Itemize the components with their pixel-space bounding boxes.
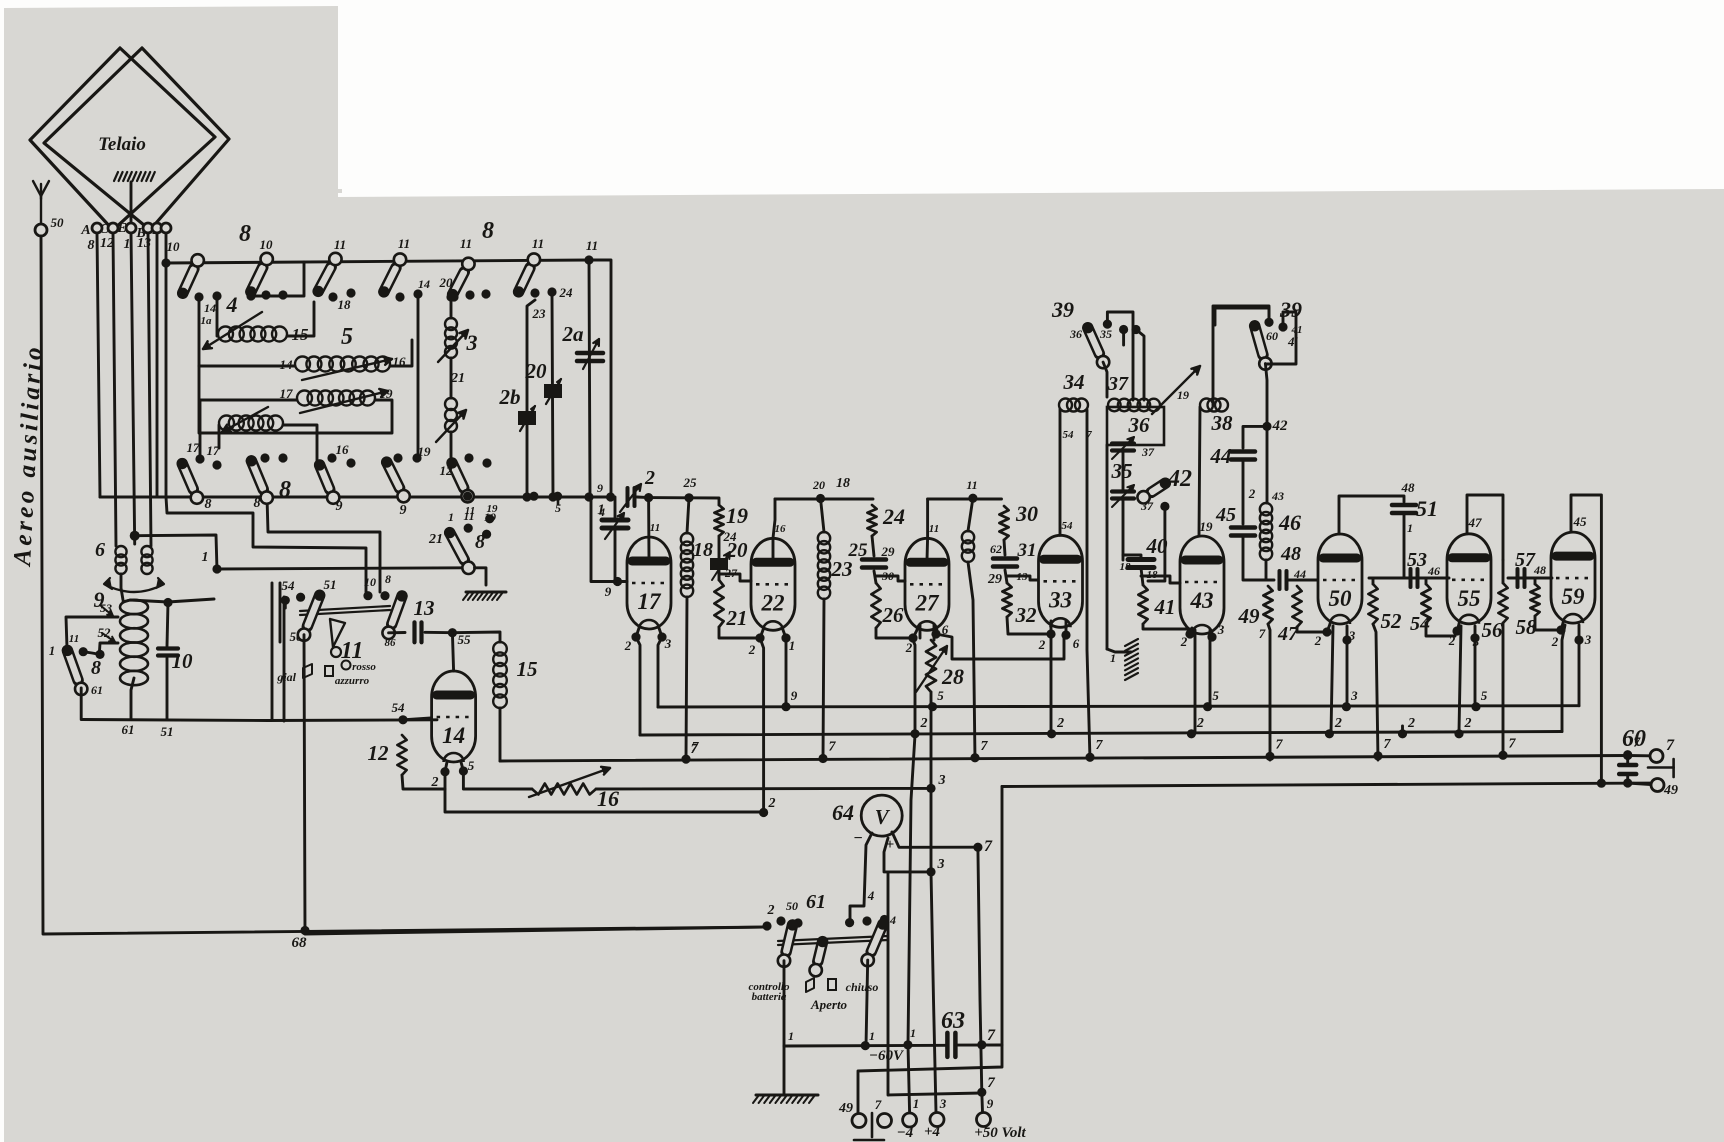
wire V27 pin2 — [913, 630, 917, 638]
switch lever 8M — [444, 527, 475, 574]
small square 61 — [828, 979, 836, 990]
wire grid line to V50 — [1287, 579, 1317, 582]
switch 11 bar — [300, 606, 390, 615]
svg-text:64: 64 — [832, 800, 854, 825]
wire box36 left down — [1106, 445, 1109, 649]
label 2 w812 — [768, 796, 776, 811]
svg-text:48: 48 — [1401, 480, 1416, 495]
wire pot16 to node3 — [596, 787, 931, 790]
wire Vminus lead — [850, 833, 872, 919]
label 2 v50 — [1314, 633, 1322, 648]
svg-text:5: 5 — [1481, 688, 1488, 703]
label 47 — [1277, 623, 1299, 645]
svg-text:55: 55 — [458, 632, 472, 647]
wire coil38 riser — [1213, 306, 1269, 405]
wire 39b contact2 loop — [1267, 312, 1296, 364]
wire E tap to node1 — [135, 535, 217, 570]
label 11 — [334, 237, 346, 252]
wire cap20 branch — [552, 296, 553, 497]
switch lever 61c — [862, 919, 889, 967]
label 21 — [726, 606, 748, 630]
wire grid V27 jog — [876, 576, 905, 581]
tube V33 — [1039, 535, 1083, 627]
svg-text:3: 3 — [1217, 622, 1225, 637]
wire vert x908 down — [908, 735, 915, 1113]
wire to terminal 49 — [1628, 783, 1651, 785]
label 68 — [292, 935, 308, 951]
label 24 r19 — [723, 529, 738, 544]
loop antenna frame (outer diamond) — [30, 48, 215, 230]
svg-text:4: 4 — [226, 292, 238, 317]
label 37 — [1107, 373, 1129, 395]
svg-text:54: 54 — [1062, 520, 1074, 532]
wire terminal C down — [113, 233, 116, 546]
wire cap2b branch — [527, 300, 535, 497]
label 54 c34 — [1063, 429, 1075, 441]
svg-text:3: 3 — [939, 1096, 947, 1111]
label 7 busC — [1276, 737, 1284, 752]
svg-text:15: 15 — [517, 657, 538, 681]
svg-text:19: 19 — [1200, 519, 1214, 534]
junction V50 pin3 — [1342, 635, 1351, 644]
svg-text:49: 49 — [1238, 604, 1261, 628]
label 45 — [1215, 504, 1236, 526]
arrow coil15 tuning — [203, 312, 262, 349]
tube V17 — [627, 537, 671, 629]
svg-text:20: 20 — [525, 359, 548, 383]
svg-text:36: 36 — [1128, 413, 1151, 437]
svg-text:1: 1 — [202, 550, 209, 565]
svg-text:20: 20 — [439, 275, 454, 290]
junction 42 node — [1262, 422, 1271, 431]
label 51 — [1416, 496, 1438, 521]
label 29 — [881, 544, 896, 559]
junction m60 a — [861, 1041, 870, 1050]
wire cap51 down to grid — [1403, 513, 1406, 578]
label 61 — [806, 891, 826, 913]
terminal batt 7b — [878, 1114, 892, 1128]
label 11 sw8 — [69, 633, 79, 645]
contact dot 8L1 — [79, 647, 88, 656]
junction V43 pin2 — [1185, 629, 1194, 638]
switch 11 rotor — [330, 619, 345, 657]
label 11 bus — [463, 509, 474, 523]
wire 39a contact3 down — [1136, 330, 1144, 401]
wire anode lead V22 — [773, 499, 775, 560]
svg-text:61: 61 — [91, 683, 103, 697]
capacitor 35a — [1112, 437, 1134, 459]
wire lever61a down — [783, 961, 786, 1046]
svg-text:2: 2 — [1248, 486, 1256, 501]
junction cap60 top — [1623, 751, 1632, 760]
svg-text:9: 9 — [605, 584, 612, 599]
label A — [80, 223, 90, 238]
label 86 — [385, 637, 397, 649]
label Telaio — [98, 134, 146, 155]
wire V22 pin2 — [760, 630, 763, 638]
svg-text:7: 7 — [1666, 737, 1675, 754]
resistor 24 — [867, 505, 876, 536]
label 63 — [941, 1008, 965, 1034]
wire node55 down to V14 — [452, 633, 453, 671]
coil 7 (long tertiary) — [297, 391, 375, 406]
selector switch lever S5 (top bank) — [447, 258, 475, 300]
svg-text:29: 29 — [987, 572, 1002, 587]
label 3 pin55 — [1472, 634, 1480, 649]
coil 6 (long secondary) — [295, 357, 390, 372]
label 9 grid — [605, 584, 612, 599]
aux antenna symbol — [33, 181, 49, 234]
junction 68 — [300, 926, 309, 935]
svg-text:1: 1 — [910, 1026, 916, 1040]
label 9 — [336, 499, 343, 514]
label 62 small — [990, 542, 1002, 556]
label 40 — [1146, 534, 1169, 558]
label 12 — [368, 741, 390, 765]
capacitor 2a (variable) — [577, 339, 603, 369]
junction coil23 top — [816, 494, 825, 503]
label 20 — [525, 359, 548, 383]
contact dot coil3 top — [446, 292, 455, 301]
phone jack mark — [1648, 759, 1674, 777]
junction bus C — [1623, 750, 1632, 759]
label 17b — [207, 443, 221, 458]
label 8 bank a — [239, 221, 251, 247]
svg-text:45: 45 — [1215, 504, 1236, 526]
label 48 small — [1533, 563, 1546, 577]
svg-text:54: 54 — [392, 700, 406, 715]
svg-text:19: 19 — [418, 444, 432, 459]
svg-text:38: 38 — [1211, 411, 1234, 435]
svg-text:26: 26 — [882, 603, 905, 627]
wire step B to switch11 — [267, 497, 380, 592]
svg-text:1a: 1a — [201, 315, 213, 327]
wire coil38 left down to V43 — [1199, 407, 1200, 536]
svg-text:61: 61 — [806, 891, 826, 913]
contact dot s61 f — [880, 915, 889, 924]
selector switch lever L1 (lower bank) — [177, 458, 204, 504]
coil 15b — [493, 642, 507, 708]
ground sw8m — [463, 592, 506, 600]
svg-text:3: 3 — [937, 857, 945, 872]
label 2 s61 — [767, 903, 775, 918]
label 2 pin43 — [1180, 634, 1188, 649]
label 31 — [1017, 540, 1037, 561]
label 51 s11 — [324, 577, 337, 592]
wire V55 sleeve L — [1459, 626, 1461, 732]
junction V33 pin6 — [1061, 630, 1070, 639]
label 7 busC — [1509, 736, 1517, 751]
terminal C — [108, 223, 118, 233]
bus A heaters — [658, 706, 1579, 707]
label 46 small — [1427, 564, 1440, 578]
svg-text:9: 9 — [791, 688, 798, 703]
svg-text:14: 14 — [418, 277, 430, 291]
wire cap40 top — [1123, 555, 1141, 559]
svg-text:49: 49 — [838, 1101, 853, 1116]
svg-text:2: 2 — [905, 640, 913, 655]
contact dot — [328, 292, 337, 301]
terminal A — [92, 223, 102, 233]
svg-text:3: 3 — [1584, 632, 1592, 647]
wire vert x982 down — [978, 847, 983, 1112]
arrow coil lower — [222, 407, 268, 432]
capacitor 25/29 — [862, 560, 886, 568]
wire terminal B down — [148, 233, 151, 546]
label +50 Volt — [974, 1125, 1026, 1141]
wire terminal D1 down — [156, 233, 159, 497]
svg-text:9: 9 — [336, 499, 343, 514]
label 54 — [1410, 613, 1430, 635]
label 42 c46 — [1271, 489, 1284, 503]
svg-text:2: 2 — [920, 716, 928, 731]
bus D supply — [1002, 783, 1658, 787]
wire V17 pin2 — [636, 628, 639, 637]
arrow tap 52 — [102, 633, 115, 642]
svg-text:chiuso: chiuso — [846, 980, 879, 994]
junction node 55 — [448, 628, 457, 637]
label 56 — [1482, 618, 1504, 642]
label 61 sw — [91, 683, 103, 697]
label 52 — [1381, 609, 1403, 633]
label 1 bus — [448, 510, 454, 524]
svg-text:4: 4 — [867, 888, 875, 903]
svg-text:10: 10 — [260, 237, 274, 252]
wire coil46 bottom — [1265, 560, 1268, 580]
svg-text:1: 1 — [789, 638, 796, 653]
svg-text:7: 7 — [984, 838, 993, 855]
label 6 pin33 — [1073, 636, 1080, 651]
wire sw8m to ground — [475, 568, 487, 585]
junction 7 low — [977, 1088, 986, 1097]
label 44 — [1210, 444, 1232, 468]
svg-text:2: 2 — [431, 775, 439, 790]
contact dot — [465, 290, 474, 299]
svg-text:24: 24 — [882, 504, 905, 529]
wire V22 pin1 — [783, 630, 786, 638]
label 46 — [1278, 510, 1301, 535]
junction V33 pin2 — [1046, 629, 1055, 638]
junction grid V17 — [613, 577, 622, 586]
svg-text:42: 42 — [1272, 418, 1289, 434]
wire anode rail 3 — [928, 498, 1002, 501]
label 7 busC — [829, 739, 837, 754]
svg-text:51: 51 — [324, 577, 337, 592]
label 14b — [418, 277, 430, 291]
svg-text:50: 50 — [786, 899, 798, 913]
label 34 — [1063, 370, 1085, 394]
junction bus C — [1373, 751, 1382, 760]
svg-text:46: 46 — [1278, 510, 1301, 535]
label 60 — [1622, 726, 1646, 752]
svg-text:11: 11 — [929, 523, 939, 535]
wire anode loop V55 — [1467, 495, 1503, 560]
svg-text:10: 10 — [167, 239, 181, 254]
wire coil34 right down to bus7 — [1087, 410, 1090, 760]
label 3 pin43 — [1217, 622, 1225, 637]
resistor 12 — [397, 735, 406, 775]
label 42 — [1167, 466, 1192, 492]
coil 3 — [445, 318, 457, 358]
label 50 s11 — [290, 629, 304, 644]
contact dot 39a3 — [1131, 325, 1140, 334]
svg-text:52: 52 — [1381, 609, 1403, 633]
label 18 b — [1147, 569, 1159, 581]
label 2 pin33 — [1038, 637, 1046, 652]
wire grid V17 riser — [591, 497, 618, 582]
svg-text:−4: −4 — [897, 1125, 914, 1141]
svg-text:8: 8 — [482, 218, 494, 244]
wire V50 sleeve L — [1331, 626, 1333, 733]
arrow coil 21 — [436, 410, 466, 442]
wire r54 top — [1425, 578, 1428, 584]
wire lever11a down long — [304, 635, 766, 934]
label 7 busC — [1384, 737, 1392, 752]
svg-text:7: 7 — [1384, 737, 1392, 752]
selector switch lever S1 (top bank) — [177, 254, 204, 299]
svg-text:61: 61 — [122, 722, 135, 737]
svg-text:−: − — [853, 830, 862, 847]
label 57 — [1515, 549, 1536, 571]
svg-text:1: 1 — [869, 1029, 875, 1043]
wire r30 to cap31 — [1004, 540, 1005, 555]
wire texture vert a — [271, 583, 274, 720]
wire terminal E down — [131, 233, 135, 544]
label 13 — [414, 596, 435, 620]
wire r26 node down bus2 — [912, 638, 915, 735]
junction Vplus 7 — [973, 843, 982, 852]
resistor 26 — [871, 583, 880, 628]
junction V50 pin2 — [1322, 627, 1331, 636]
label 2 busB — [920, 716, 928, 731]
svg-text:2: 2 — [1056, 716, 1064, 731]
svg-text:7: 7 — [981, 739, 989, 754]
wire grid V43 jog — [1141, 576, 1180, 583]
resistor 56 — [1498, 583, 1507, 623]
contact dot lower — [327, 453, 336, 462]
label 2 pin22 — [748, 642, 756, 657]
wire coil9 bottom — [131, 678, 134, 720]
contact dot — [547, 287, 556, 296]
wire lever61c down — [866, 960, 868, 1046]
label 30 — [1015, 501, 1038, 526]
label 5 busA — [1212, 688, 1219, 703]
svg-text:60: 60 — [1622, 726, 1646, 752]
label 17 — [187, 440, 201, 455]
label 7 m60 — [987, 1027, 996, 1044]
label 49 t — [838, 1101, 853, 1116]
junction V55 pin3 — [1470, 633, 1479, 642]
wire top selector bus — [166, 260, 589, 263]
label 55 — [458, 632, 472, 647]
svg-text:37: 37 — [1107, 373, 1129, 395]
label 2 pin27 — [905, 640, 913, 655]
svg-text:16: 16 — [775, 523, 787, 535]
contact dot 39a1 — [1103, 320, 1112, 329]
label 8 bank b — [482, 218, 494, 244]
wire 39a contact2 down — [1122, 330, 1125, 346]
wire busD down — [858, 787, 1002, 1114]
svg-text:17: 17 — [207, 443, 221, 458]
selector switch lever L4 (lower bank) — [381, 457, 410, 503]
wire coil27b to bus7 — [968, 562, 975, 760]
contact dot lower — [260, 453, 269, 462]
wire 39b top loop — [1215, 308, 1269, 325]
svg-text:56: 56 — [1482, 618, 1504, 642]
label 7 busC — [981, 739, 989, 754]
svg-text:11: 11 — [586, 238, 598, 253]
svg-text:8: 8 — [205, 497, 212, 512]
wire r24 to cap25 — [872, 536, 874, 556]
svg-text:11: 11 — [334, 237, 346, 252]
coil 34 top — [1059, 399, 1088, 412]
label 18 — [693, 539, 713, 561]
label 27 small — [724, 566, 738, 580]
label 39 b — [1279, 297, 1302, 322]
label 7 busC — [1096, 738, 1104, 753]
switch lever 42 — [1137, 478, 1171, 504]
curved arrow coupling — [104, 578, 164, 592]
label 13 small — [1017, 571, 1029, 583]
wire coil18 down to bus7 — [686, 597, 687, 760]
svg-text:10: 10 — [172, 649, 194, 673]
svg-text:31: 31 — [1017, 540, 1037, 561]
junction bus C — [1265, 752, 1274, 761]
ground V33 branch — [1125, 639, 1138, 680]
tube V59 — [1551, 532, 1595, 623]
contact dot s11 8 — [380, 591, 389, 600]
junction m60 c — [977, 1040, 986, 1049]
label 2 pin14 — [431, 775, 439, 790]
label 16 — [336, 442, 350, 457]
label 11 — [398, 236, 410, 251]
wire node42 jog to cap44 — [1243, 426, 1267, 448]
svg-text:gial: gial — [276, 670, 296, 684]
resistor 54 — [1421, 584, 1430, 623]
label 14 coil15 — [201, 315, 213, 327]
wire step lever4 contact down — [417, 296, 420, 458]
svg-text:8: 8 — [88, 238, 95, 253]
label 3 pin — [664, 636, 672, 651]
svg-text:39: 39 — [1051, 297, 1074, 322]
wire coil23 top lead — [821, 499, 825, 533]
battery bar — [871, 1113, 874, 1137]
wire terminal D2 down — [165, 233, 168, 497]
selector switch lever L2 (lower bank) — [246, 455, 273, 504]
label 36 — [1128, 413, 1151, 437]
label 1 s61a — [788, 1029, 794, 1043]
wire V43 sleeve R — [1209, 630, 1212, 708]
label 1 gnd — [1110, 651, 1116, 665]
contact dot s11 54 — [281, 596, 290, 605]
contact dot — [261, 290, 270, 299]
svg-text:6: 6 — [1073, 636, 1080, 651]
label 2 pin59 — [1551, 634, 1559, 649]
wire coil7 left lead — [200, 400, 297, 459]
label 19 bus — [484, 510, 496, 524]
wire vert x933 down — [931, 872, 936, 1112]
wire cap1 branch — [614, 497, 617, 519]
label 52 — [98, 625, 112, 640]
contact dot 8L2 — [95, 650, 104, 659]
wire 42 contact down — [1148, 506, 1165, 581]
svg-text:azzurro: azzurro — [335, 675, 370, 687]
wire coil46 branch — [1266, 426, 1269, 503]
switch lever 11a — [298, 590, 326, 641]
junction bus C — [681, 755, 690, 764]
svg-text:18: 18 — [836, 476, 850, 491]
wire top bus corner down — [589, 260, 611, 497]
